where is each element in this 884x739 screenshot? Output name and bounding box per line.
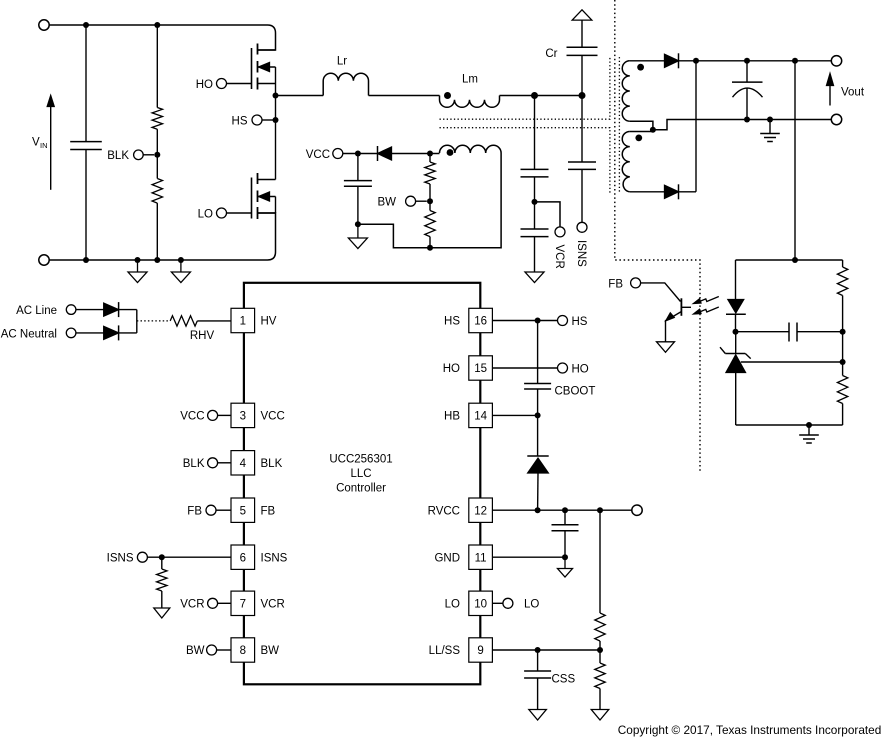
svg-text:HS: HS — [444, 316, 460, 328]
svg-text:AC Neutral: AC Neutral — [1, 328, 57, 340]
svg-text:LO: LO — [445, 598, 460, 610]
svg-text:BW: BW — [377, 197, 396, 209]
svg-text:LL/SS: LL/SS — [429, 645, 461, 657]
svg-text:IN: IN — [40, 141, 48, 150]
svg-text:11: 11 — [475, 552, 487, 564]
svg-text:1: 1 — [240, 316, 246, 328]
svg-text:BW: BW — [261, 645, 280, 657]
svg-text:Vout: Vout — [841, 87, 865, 99]
svg-text:FB: FB — [261, 505, 276, 517]
svg-text:ISNS: ISNS — [107, 553, 134, 565]
svg-text:BLK: BLK — [107, 150, 129, 162]
svg-text:VCR: VCR — [553, 245, 565, 269]
svg-text:VCC: VCC — [180, 411, 204, 423]
svg-text:HO: HO — [443, 363, 460, 375]
svg-text:AC Line: AC Line — [16, 305, 57, 317]
svg-text:9: 9 — [477, 645, 483, 657]
svg-text:HO: HO — [572, 363, 589, 375]
svg-text:Copyright © 2017, Texas Instru: Copyright © 2017, Texas Instruments Inco… — [618, 723, 882, 737]
svg-text:5: 5 — [240, 505, 246, 517]
svg-text:HB: HB — [444, 411, 460, 423]
svg-text:BLK: BLK — [261, 458, 283, 470]
svg-text:BW: BW — [186, 645, 205, 657]
svg-text:UCC256301: UCC256301 — [329, 454, 392, 466]
svg-text:HS: HS — [232, 116, 248, 128]
svg-text:CBOOT: CBOOT — [555, 386, 596, 398]
svg-text:FB: FB — [187, 505, 202, 517]
svg-text:LLC: LLC — [350, 468, 371, 480]
svg-text:Controller: Controller — [336, 483, 386, 495]
svg-text:6: 6 — [240, 552, 246, 564]
svg-text:VCC: VCC — [306, 149, 330, 161]
svg-text:FB: FB — [608, 278, 623, 290]
svg-text:CSS: CSS — [552, 674, 576, 686]
svg-text:LO: LO — [198, 209, 213, 221]
svg-text:HO: HO — [196, 79, 213, 91]
svg-text:RVCC: RVCC — [428, 505, 460, 517]
svg-text:V: V — [32, 137, 40, 149]
svg-text:10: 10 — [474, 598, 487, 610]
svg-text:12: 12 — [474, 505, 487, 517]
svg-text:Lr: Lr — [337, 56, 347, 68]
svg-text:BLK: BLK — [183, 458, 205, 470]
svg-text:LO: LO — [524, 599, 539, 611]
svg-text:RHV: RHV — [190, 330, 215, 342]
svg-text:15: 15 — [474, 363, 487, 375]
svg-text:VCR: VCR — [180, 598, 204, 610]
svg-text:7: 7 — [240, 598, 246, 610]
svg-text:Cr: Cr — [545, 48, 557, 60]
svg-text:GND: GND — [434, 552, 460, 564]
svg-text:16: 16 — [474, 316, 487, 328]
svg-text:VCR: VCR — [261, 598, 285, 610]
svg-text:HV: HV — [261, 316, 277, 328]
svg-text:ISNS: ISNS — [575, 240, 587, 267]
svg-text:VCC: VCC — [261, 411, 285, 423]
svg-text:8: 8 — [240, 645, 246, 657]
svg-text:3: 3 — [240, 411, 246, 423]
svg-text:14: 14 — [474, 411, 487, 423]
svg-text:ISNS: ISNS — [261, 552, 288, 564]
svg-text:4: 4 — [240, 458, 247, 470]
svg-text:HS: HS — [572, 316, 588, 328]
svg-text:Lm: Lm — [462, 74, 478, 86]
